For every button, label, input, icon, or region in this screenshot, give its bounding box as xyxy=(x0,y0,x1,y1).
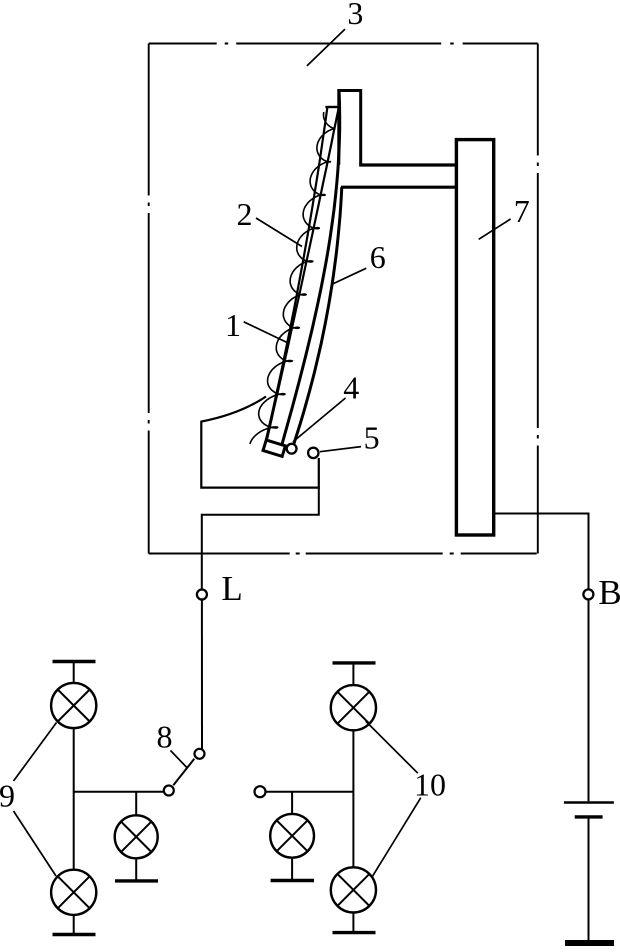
wire: branch down to middle lamp xyxy=(135,792,137,816)
wire: right middle lamp to its chassis bar xyxy=(291,858,293,881)
leader line for label 5 xyxy=(320,447,361,452)
left group bottom chassis bar xyxy=(53,933,96,936)
wire from terminal B down to battery xyxy=(588,600,590,802)
wire: left group branch to switch 8 xyxy=(74,791,164,793)
heater coil 2 wound on strip 1 xyxy=(250,112,335,444)
wire: top bar to top-right lamp xyxy=(352,663,354,686)
wire: top bar to top-left lamp xyxy=(73,662,75,684)
relay housing dash-dot boundary 3 (top edge) xyxy=(149,43,538,45)
wire: middle lamp to its chassis bar xyxy=(135,858,137,881)
right group top chassis bar xyxy=(333,661,376,664)
svg-text:7: 7 xyxy=(514,193,530,229)
wire: top-left lamp down to bottom-left lamp xyxy=(73,728,75,871)
leader line from 10 to bottom lamp xyxy=(372,798,421,878)
leader line for label 3 xyxy=(307,29,345,66)
svg-text:8: 8 xyxy=(157,719,173,755)
lamp (left group, middle) xyxy=(115,815,158,858)
switch 8 lower contact xyxy=(164,786,174,796)
relay housing dash-dot boundary 3 (right edge) xyxy=(537,44,539,554)
wire: junction down to right middle lamp xyxy=(291,792,293,814)
fixed plate 7 xyxy=(456,140,493,535)
wire from terminal L down to flasher switch 8 xyxy=(201,600,203,749)
pedestal base outline xyxy=(201,397,318,488)
fixed contact 5 xyxy=(308,448,318,458)
bimetal strip 1 right edge xyxy=(266,107,339,445)
spring strip 6 left edge xyxy=(281,90,340,449)
svg-text:6: 6 xyxy=(370,239,386,275)
svg-text:L: L xyxy=(221,569,242,608)
svg-text:4: 4 xyxy=(343,369,359,405)
relay housing dash-dot boundary 3 (left edge) xyxy=(148,44,150,554)
terminal L circle xyxy=(197,590,207,600)
wire from plate 7 to terminal B xyxy=(492,514,588,590)
upper support arm (bottom edge) xyxy=(341,186,457,189)
clamp top of bimetal strip 1 xyxy=(325,106,338,108)
lamp (right group, top) xyxy=(331,685,376,730)
right group bottom chassis bar xyxy=(333,931,376,934)
leader line for label 6 xyxy=(332,268,367,284)
switch 8 arm xyxy=(173,759,194,785)
left middle lamp chassis bar xyxy=(115,879,158,882)
svg-text:B: B xyxy=(598,573,620,612)
battery negative plate (short) xyxy=(575,815,603,818)
wire: open terminal to right group junction xyxy=(266,791,354,793)
leader line from 9 to top lamp xyxy=(14,723,57,782)
leader line for label 1 xyxy=(244,322,288,343)
leader line for label 7 xyxy=(479,219,511,239)
leader line from 10 to top lamp xyxy=(366,721,418,773)
wire from contact 5 post down and left to terminal L xyxy=(202,488,319,590)
lamp (right group, middle) xyxy=(270,814,314,858)
mounting column top (frame post) xyxy=(339,91,361,165)
svg-text:3: 3 xyxy=(347,0,363,31)
wire: top-right lamp down to bottom-right lamp xyxy=(352,730,354,867)
bimetal strip 1 left edge xyxy=(265,107,327,444)
svg-text:9: 9 xyxy=(0,778,15,814)
svg-text:10: 10 xyxy=(414,767,446,803)
relay housing dash-dot boundary 3 (bottom edge) xyxy=(149,553,538,555)
lamp (right group, bottom) xyxy=(331,867,376,912)
lamp (left group, top) xyxy=(51,683,96,728)
moving contact 4 xyxy=(287,444,297,454)
wire: bottom-right lamp to bottom chassis bar xyxy=(352,913,354,933)
lamp (left group, bottom) xyxy=(51,870,96,915)
upper support arm (top edge) xyxy=(359,163,457,166)
contact tip block at end of strips xyxy=(263,440,285,456)
switch 8 upper contact xyxy=(195,749,205,759)
leader line for label 2 xyxy=(256,218,302,247)
wire from battery to chassis bar xyxy=(588,817,590,941)
right middle lamp chassis bar xyxy=(271,879,314,882)
left lamp group: top chassis bar xyxy=(53,660,96,663)
svg-text:2: 2 xyxy=(237,196,253,232)
terminal B circle xyxy=(583,589,593,599)
battery chassis bar xyxy=(565,940,614,946)
leader line for label 8 xyxy=(171,751,188,769)
svg-text:1: 1 xyxy=(225,307,241,343)
wire: bottom-left lamp to bottom chassis bar xyxy=(73,915,75,935)
leader line for label 4 xyxy=(293,398,346,442)
right lamp group: open terminal circle xyxy=(255,786,266,797)
svg-text:5: 5 xyxy=(364,420,380,456)
spring strip 6 right edge xyxy=(292,187,342,450)
leader line from 9 to bottom lamp xyxy=(14,811,57,876)
battery positive plate (long) xyxy=(564,801,614,804)
